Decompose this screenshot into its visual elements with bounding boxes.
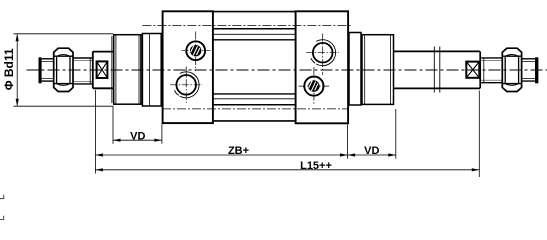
svg-text:VD: VD [130, 130, 145, 142]
svg-text:VD: VD [364, 145, 379, 157]
svg-text:ZB+: ZB+ [228, 145, 249, 157]
svg-text:L15++: L15++ [300, 160, 332, 172]
svg-text:Φ Bd11: Φ Bd11 [2, 48, 16, 90]
